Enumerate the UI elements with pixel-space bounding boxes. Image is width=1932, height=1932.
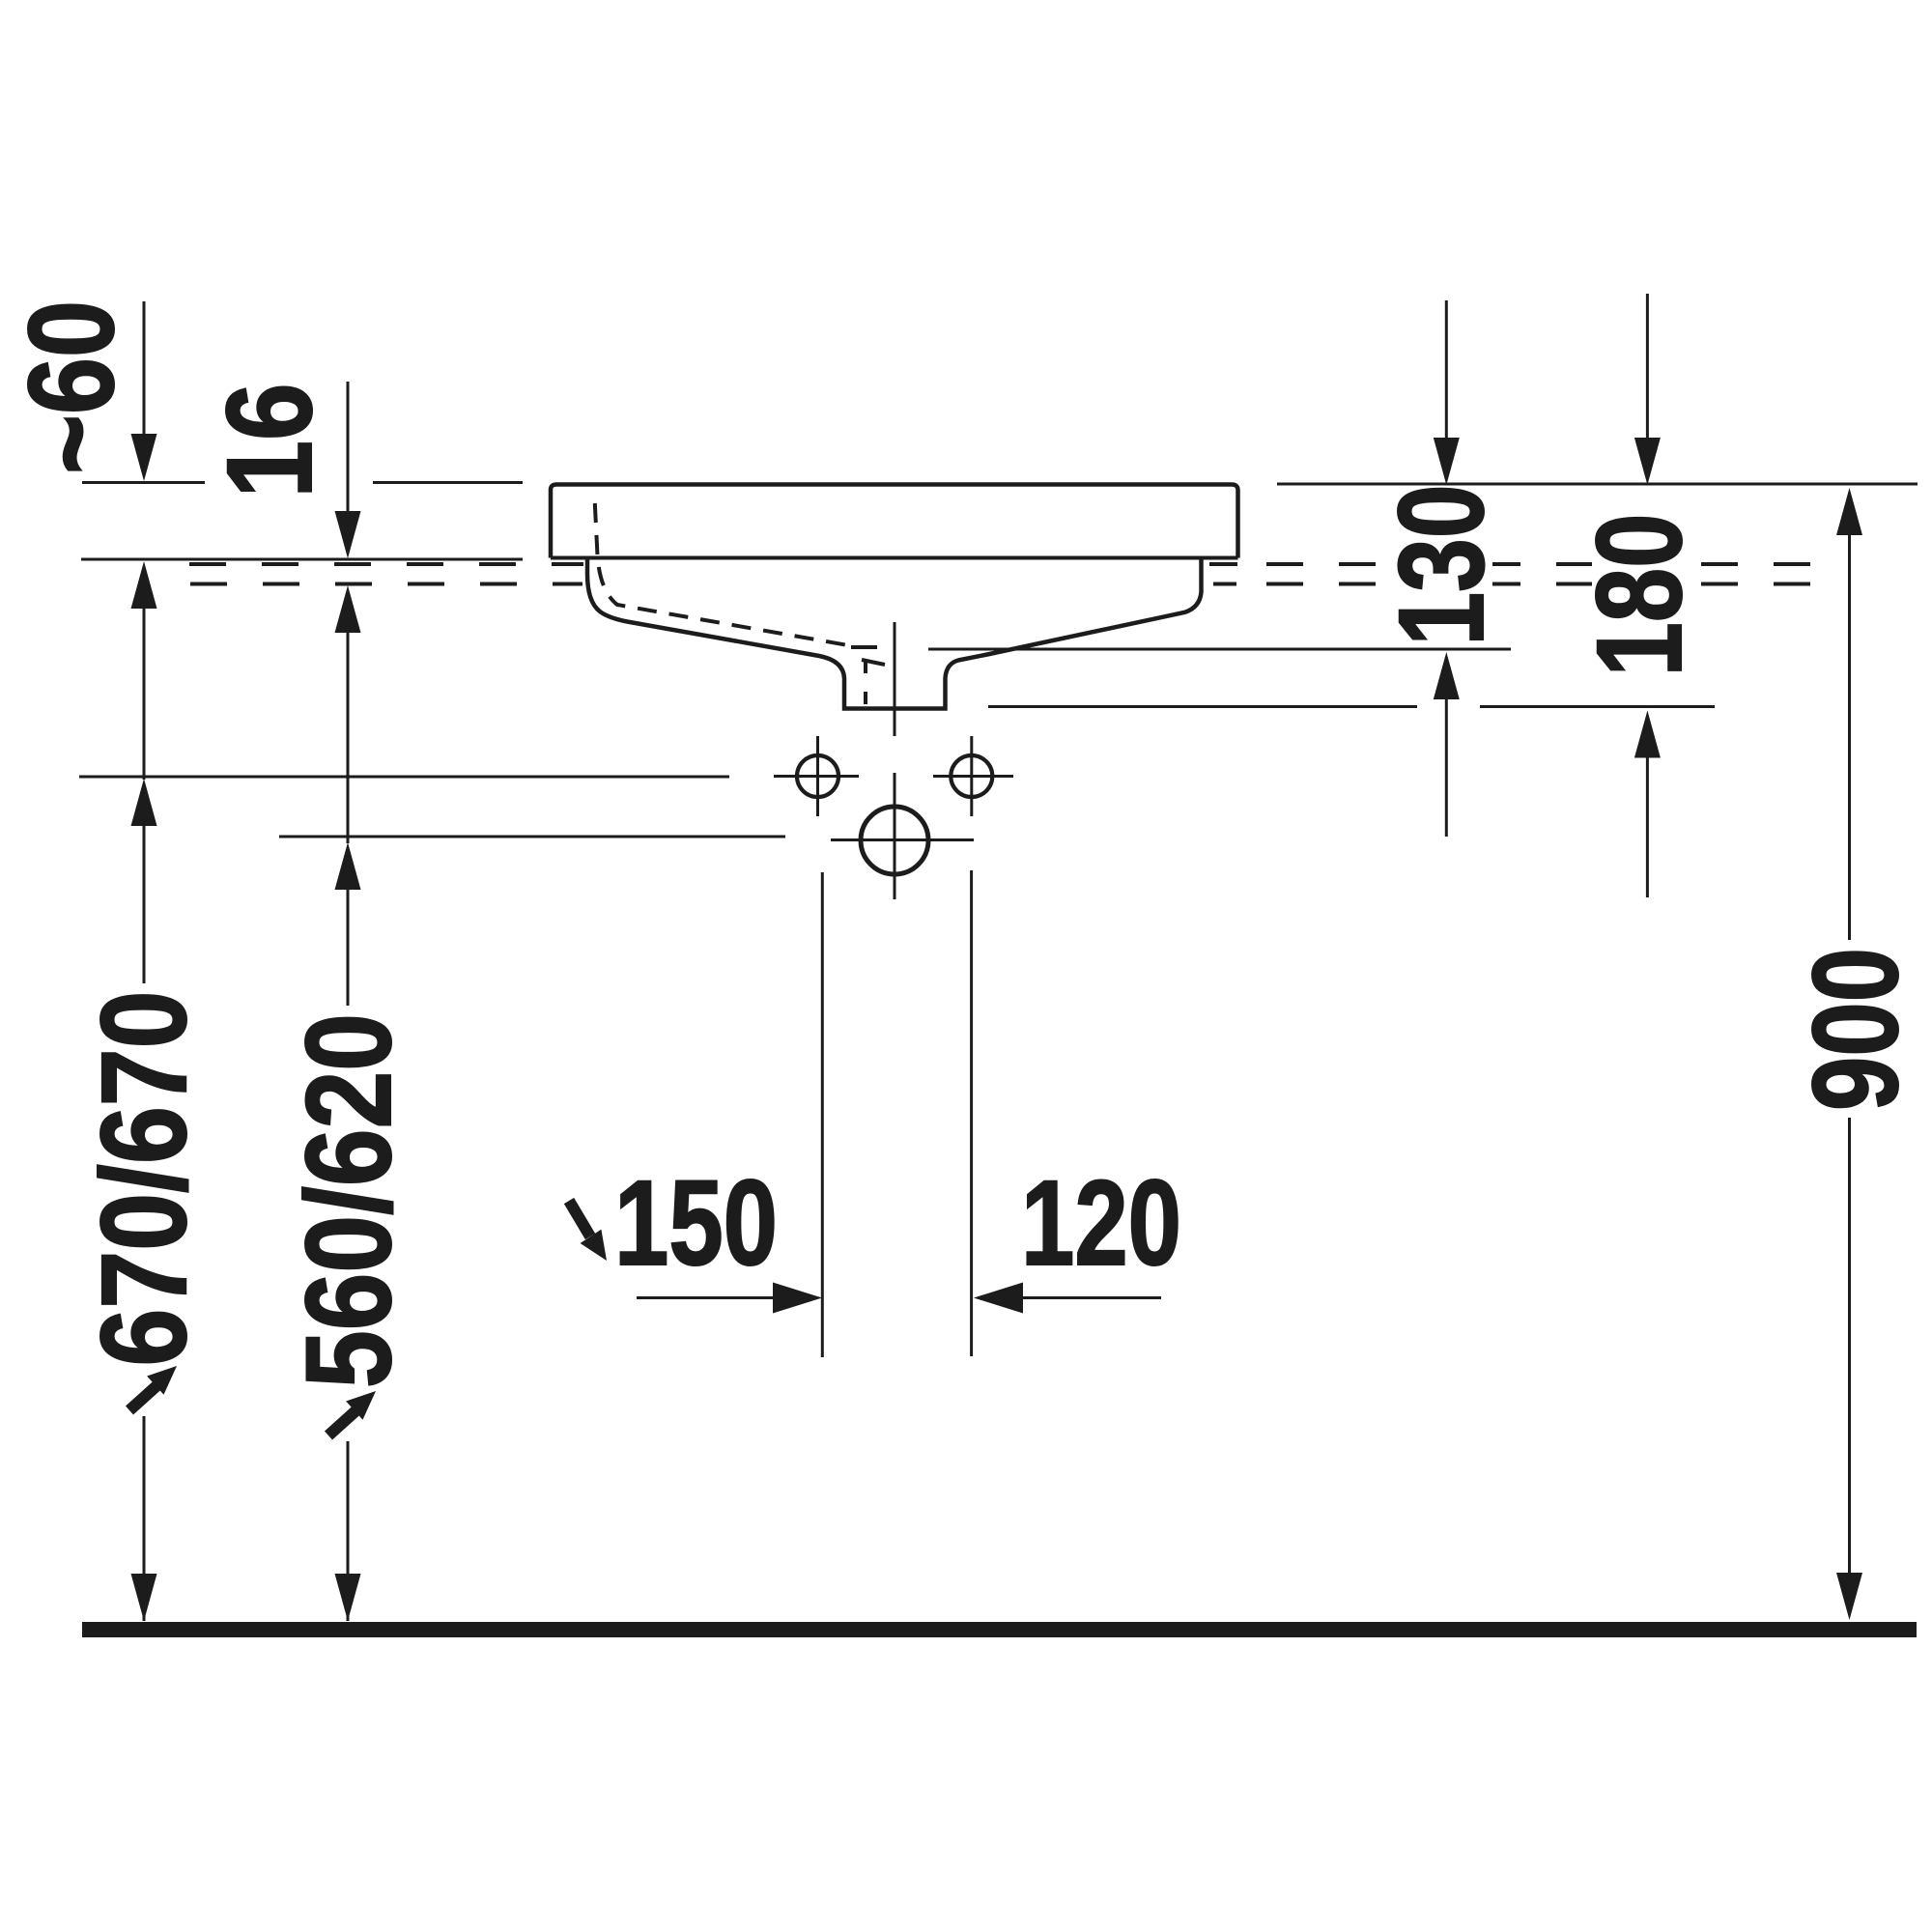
washbasin rim outline xyxy=(551,485,1238,558)
arrowhead 900 up xyxy=(1836,488,1862,535)
washbasin rim bottom edge xyxy=(551,556,1238,560)
dimension 150 horizontal line xyxy=(637,1296,775,1299)
drain hole crosshair xyxy=(831,838,974,841)
basin outer wall and drain boss outline xyxy=(587,559,1202,709)
svg-text:560/620: 560/620 xyxy=(282,1013,416,1388)
svg-text:120: 120 xyxy=(1021,1156,1181,1291)
dimension ~60 / 670 intermediate shaft xyxy=(143,608,146,780)
drain hole circle xyxy=(861,807,928,874)
dimension 670/670 shaft above text xyxy=(143,825,146,991)
arrowhead ~60 down xyxy=(131,434,157,481)
arrowhead 560/620 up (at drain axis line) xyxy=(335,842,361,890)
arrowhead ~60 up (at countertop) xyxy=(131,561,157,609)
drain-bottom reference line (180 bottom) left part xyxy=(988,705,1417,708)
arrowhead 150 right xyxy=(773,1283,822,1314)
dimension 670/670 shaft below text xyxy=(143,1416,146,1621)
arrowhead 16 down xyxy=(335,511,361,558)
faucet hole right crosshair xyxy=(933,775,1013,778)
dashed countertop bottom line (under rim) xyxy=(1213,582,1236,586)
faucet-hole axis reference line (670/670 top) xyxy=(79,776,729,779)
drain-bottom reference line (180 bottom) right part xyxy=(1480,705,1715,708)
faucet hole left circle xyxy=(797,755,838,797)
rim-underside reference line xyxy=(81,558,523,561)
svg-text:900: 900 xyxy=(1789,948,1923,1111)
floor line xyxy=(82,1622,1917,1637)
hidden drain recess edge dashes xyxy=(851,645,877,649)
oblique reference arrow for 150 xyxy=(569,1201,607,1261)
arrowhead 560/620 down (at floor) xyxy=(335,1574,361,1621)
hidden inner basin wall (dashed) xyxy=(595,497,849,645)
svg-text:150: 150 xyxy=(614,1156,778,1291)
dashed countertop bottom line (left run) xyxy=(190,582,582,586)
dimension 16 / 560 intermediate shaft xyxy=(347,632,350,843)
arrowhead 180 up xyxy=(1634,711,1661,758)
drain-hole axis reference line (560/620 top) xyxy=(279,836,785,838)
rim-top reference line right segment xyxy=(1277,483,1918,486)
faucet hole right circle xyxy=(951,755,992,797)
basin-depth reference line (130 bottom) xyxy=(928,648,1511,651)
rim-top reference line left short segment xyxy=(82,481,205,484)
dimension 120 horizontal line xyxy=(1023,1296,1161,1299)
arrowhead 130 up xyxy=(1434,652,1460,699)
arrowhead 900 down (at floor) xyxy=(1836,1573,1862,1620)
dimension 180 upper shaft xyxy=(1646,294,1649,439)
dimension 16 upper shaft xyxy=(347,382,350,512)
svg-text:16: 16 xyxy=(203,384,337,498)
dimension ~60 upper shaft xyxy=(143,301,146,435)
svg-text:130: 130 xyxy=(1375,485,1509,646)
dimension 560/620 shaft above text xyxy=(347,889,350,1013)
basin vertical centerline xyxy=(894,622,896,736)
arrowhead 16 up (at countertop bottom) xyxy=(335,585,361,633)
white halo behind dimension texts xyxy=(91,488,1907,1394)
arrowhead 670/670 up (at hole axis line) xyxy=(131,779,157,826)
dimension 560/620 shaft below text xyxy=(347,1441,350,1621)
arrowhead 180 down xyxy=(1634,438,1661,485)
dashed countertop top line (under rim) xyxy=(1209,562,1237,566)
dashed countertop bottom line (right run) xyxy=(1266,582,1820,586)
oblique reference arrow for 560/620 xyxy=(328,1391,376,1435)
oblique reference arrow for 670/670 xyxy=(129,1366,177,1410)
dashed countertop top line (left run) xyxy=(189,562,583,566)
dimension 130 lower shaft xyxy=(1445,698,1448,837)
svg-text:~60: ~60 xyxy=(5,300,139,474)
extension line from left faucet hole down xyxy=(821,872,824,1357)
arrowhead 670/670 down (at floor) xyxy=(131,1574,157,1621)
arrowhead 130 down xyxy=(1434,438,1460,485)
extension line from right faucet hole down xyxy=(970,870,973,1356)
svg-text:180: 180 xyxy=(1573,514,1707,677)
arrowhead 120 left xyxy=(974,1283,1023,1314)
dimension 900 shaft xyxy=(1848,534,1851,1573)
dimension 130 upper shaft xyxy=(1445,300,1448,439)
rim-top reference line mid segment xyxy=(373,481,523,484)
dimension 180 lower shaft xyxy=(1646,757,1649,897)
dashed countertop top line (right run) xyxy=(1266,562,1820,566)
faucet hole left crosshair xyxy=(774,775,859,778)
svg-text:670/670: 670/670 xyxy=(77,991,212,1367)
